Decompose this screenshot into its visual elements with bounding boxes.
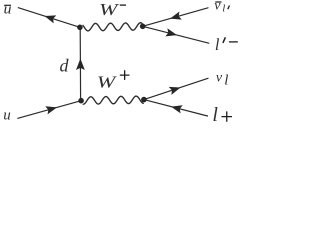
vertex dot D (W-plus to leptons): [141, 97, 147, 103]
arrowhead on l-prime-minus line (points outward): [165, 28, 177, 36]
svg-text:ν: ν: [216, 71, 223, 86]
arrowhead on nu-bar line (points toward vertex): [170, 12, 182, 20]
label u-bar (incoming antiquark): [4, 2, 12, 18]
label nu-bar-l-prime (outgoing antineutrino): [214, 0, 229, 15]
svg-text:W: W: [97, 73, 117, 92]
wire: outgoing lepton l-prime-minus line: [143, 26, 209, 43]
vertex dot A (u-bar, d, W-minus): [77, 25, 83, 31]
wire: incoming quark u line: [18, 101, 81, 119]
wire: incoming antiquark u-bar line: [18, 8, 80, 28]
label nu-l (outgoing neutrino): [216, 71, 229, 89]
svg-text:u: u: [4, 2, 12, 18]
svg-text:d: d: [60, 56, 70, 76]
wire: W-plus boson wavy propagator: [83, 96, 143, 104]
svg-text:l: l: [215, 35, 220, 54]
svg-text:l: l: [224, 73, 228, 89]
wire: outgoing antineutrino nu-bar line: [143, 8, 208, 27]
arrowhead on u line (points toward vertex): [45, 106, 57, 114]
svg-text:u: u: [3, 107, 11, 123]
wire: d-quark propagator (vertical): [79, 27, 81, 100]
arrowhead on l-plus line (points toward vertex): [171, 105, 183, 113]
wire: W-minus boson wavy propagator: [83, 23, 142, 31]
wire: outgoing neutrino nu-l line: [144, 78, 208, 99]
wire: outgoing antilepton l-plus line: [144, 100, 208, 116]
svg-text:l: l: [212, 104, 218, 126]
label l-plus (outgoing antilepton): [212, 104, 232, 126]
vertex dot C (W-minus to leptons): [140, 24, 146, 30]
arrowhead on d propagator (points up): [76, 59, 85, 71]
label l-prime-minus (outgoing lepton): [215, 35, 238, 54]
svg-text:W: W: [99, 0, 119, 19]
arrowhead on nu-l line (points outward): [169, 87, 181, 95]
label W-plus: [97, 70, 130, 91]
vertex dot B (u, d, W-plus): [78, 98, 84, 104]
label W-minus: [99, 0, 126, 19]
arrowhead on u-bar line (points up-left): [45, 15, 57, 23]
svg-text:l: l: [222, 3, 225, 15]
